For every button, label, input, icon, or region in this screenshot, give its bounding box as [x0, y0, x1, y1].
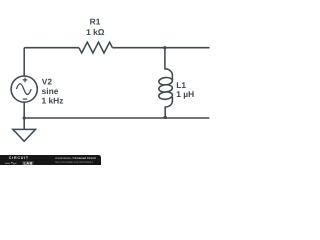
svg-text:1 kΩ: 1 kΩ [86, 27, 105, 37]
wire: bottom rail [24, 117, 209, 119]
V2 sine squiggle [16, 84, 31, 95]
inductor L1 coil loop 1 [159, 77, 173, 85]
resistor R1 [79, 42, 113, 53]
wire: V2 top lead up to top rail [23, 48, 25, 76]
svg-text:1 µH: 1 µH [176, 89, 194, 99]
watermark text line 2 [55, 160, 93, 164]
CircuitLab logo wordmark [9, 156, 29, 160]
V2 minus sign [23, 98, 28, 100]
svg-text:V2: V2 [42, 76, 53, 86]
voltage source V2 circle [11, 76, 37, 102]
ground [13, 118, 36, 141]
junction node: bottom rail / ground [23, 116, 26, 119]
svg-text:LAB: LAB [24, 161, 33, 165]
wire: top rail right segment [112, 47, 209, 49]
junction node: top rail / L1 [163, 46, 166, 49]
inductor L1 coil loop 2 [159, 84, 173, 92]
svg-text:sine: sine [42, 86, 59, 96]
inductor L1 top lead and entry hook [165, 48, 173, 80]
wire: V2 bottom lead down to bottom rail [23, 102, 25, 118]
inductor L1 exit hook and bottom lead [165, 97, 172, 117]
watermark bar [0, 155, 101, 167]
junction node: bottom rail / L1 [164, 116, 167, 119]
wire: top rail left segment to resistor [24, 47, 79, 49]
V2 plus sign [23, 78, 28, 83]
inductor L1 coil loop 3 [159, 91, 173, 99]
svg-text:1 kHz: 1 kHz [42, 96, 64, 106]
svg-text:R1: R1 [90, 17, 101, 27]
CircuitLab logo second row with LAB box [5, 161, 35, 166]
watermark text line 1 [55, 156, 96, 160]
